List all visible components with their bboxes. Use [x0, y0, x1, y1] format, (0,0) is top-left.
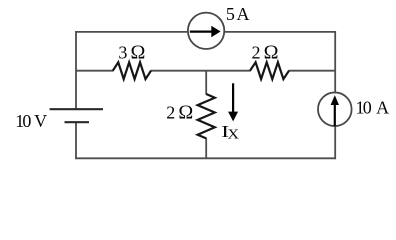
wire middle rail segment A [76, 70, 114, 72]
wire top rail left segment [75, 31, 188, 33]
wire center vertical upper [205, 71, 207, 95]
svg-text:3Ω: 3Ω [118, 41, 145, 63]
wire bottom rail [75, 157, 336, 159]
wire center vertical lower [205, 138, 207, 159]
wire middle rail segment C [289, 70, 336, 72]
svg-text:10A: 10A [356, 97, 390, 117]
resistor R2 2 ohm zigzag (top right) [250, 62, 289, 79]
current source I1 5A circle [188, 13, 224, 49]
current source I2 10A circle [318, 92, 352, 126]
wire left vertical lower [75, 122, 77, 159]
svg-text:5A: 5A [226, 4, 250, 24]
current source I1 arrow head [211, 26, 220, 37]
current Ix arrow shaft [232, 83, 234, 112]
current source I2 arrow shaft [334, 105, 336, 127]
svg-text:2Ω: 2Ω [252, 41, 279, 63]
wire right vertical upper [334, 31, 336, 93]
current Ix arrow head [228, 112, 238, 122]
battery V1 bottom plate (short) [65, 121, 90, 123]
resistor R1 3 ohm zigzag [113, 62, 151, 79]
wire right vertical lower [334, 126, 336, 159]
svg-text:X: X [228, 128, 240, 143]
wire left vertical upper [75, 31, 77, 109]
wire top rail right segment [224, 31, 336, 33]
wire middle rail segment B [151, 70, 251, 72]
current source I2 arrow head [331, 95, 339, 105]
resistor R3 2 ohm vertical zigzag (middle) [198, 94, 215, 138]
battery V1 top plate (long) [50, 108, 103, 110]
svg-text:10V: 10V [15, 111, 47, 131]
current source I1 arrow shaft [190, 31, 213, 33]
svg-text:2Ω: 2Ω [166, 101, 193, 123]
